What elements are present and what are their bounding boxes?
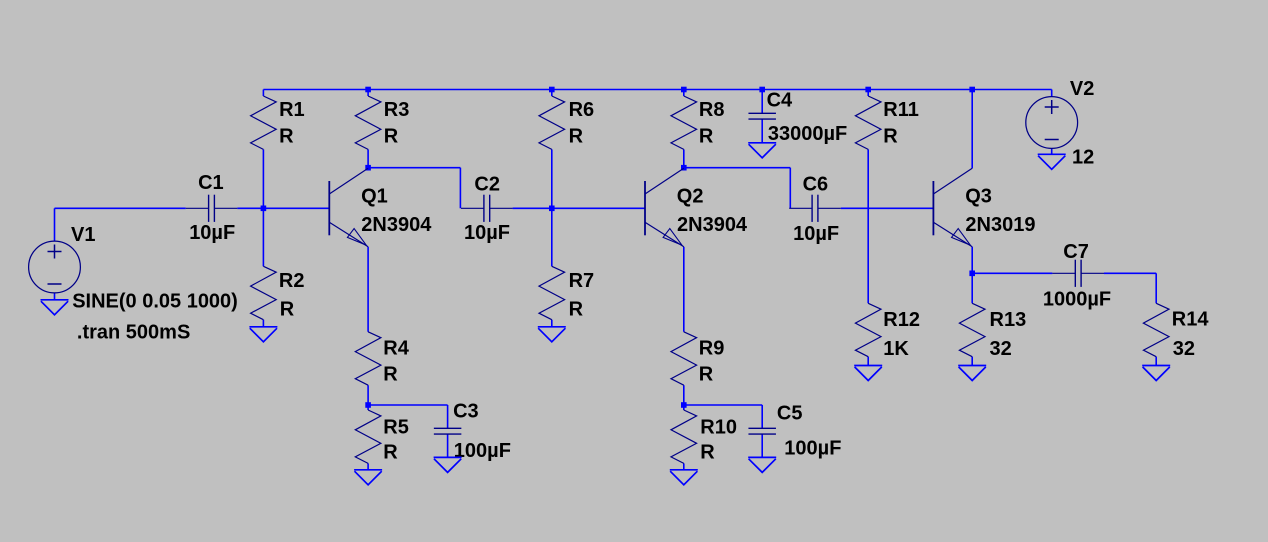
svg-text:10µF: 10µF (464, 222, 510, 244)
svg-text:R: R (384, 126, 399, 148)
resistor R4 (355, 332, 381, 385)
junction Q2 collector node (681, 165, 687, 171)
svg-text:100µF: 100µF (784, 438, 841, 460)
svg-text:R1: R1 (279, 99, 305, 121)
voltage source V1 (29, 241, 81, 293)
wire top supply rail (263, 89, 1051, 91)
wire C2 corner drop (459, 168, 461, 209)
svg-text:R: R (383, 442, 398, 464)
wire R5 ground stub (367, 463, 369, 469)
wire R6 top stub (551, 90, 553, 97)
capacitor C2 (461, 195, 513, 222)
wire R2 top lead (262, 208, 264, 266)
resistor R1 (251, 96, 277, 149)
junction R3 top (365, 87, 371, 93)
wire node A to Q1 base (263, 207, 329, 209)
wire C5 bottom lead (761, 434, 763, 457)
junction node B (C2/R6/R7/Q2 base) (549, 206, 555, 212)
wire V1 to signal row (54, 208, 56, 241)
wire R7 ground stub (551, 320, 553, 327)
svg-text:33000µF: 33000µF (768, 123, 847, 145)
resistor R9 (671, 332, 697, 385)
resistor R3 (355, 96, 381, 149)
svg-text:C3: C3 (453, 401, 479, 423)
capacitor C7 (1052, 260, 1104, 287)
svg-text:R3: R3 (384, 99, 410, 121)
wire R12 ground stub (867, 357, 869, 366)
wire V2 ground stub (1051, 148, 1053, 154)
wire Q2 emitter to R9 (683, 247, 685, 332)
svg-text:R6: R6 (569, 99, 595, 121)
capacitor C3 (434, 428, 462, 434)
ground R10 (670, 470, 698, 485)
resistor R7 (539, 266, 565, 319)
svg-text:V1: V1 (71, 224, 95, 246)
svg-text:R13: R13 (990, 309, 1027, 331)
ground R7 (538, 327, 566, 342)
svg-text:R2: R2 (279, 270, 305, 292)
svg-text:Q3: Q3 (965, 185, 992, 207)
svg-text:Q2: Q2 (677, 185, 704, 207)
wire Q1 emitter to R4 (367, 247, 369, 332)
wire R10 top stub (683, 405, 685, 410)
wire R6 bottom lead (551, 149, 553, 208)
wire Q3 collector riser (971, 90, 973, 169)
svg-text:32: 32 (990, 338, 1012, 360)
wire C7 to R14 corner (1104, 272, 1156, 274)
wire R5 top stub (367, 405, 369, 410)
resistor R11 (855, 96, 881, 149)
wire R1 bottom lead (262, 149, 264, 208)
wire C5 top lead (761, 405, 763, 428)
wire C6 right to Q3 base (841, 207, 934, 209)
svg-text:32: 32 (1173, 338, 1195, 360)
svg-text:2N3019: 2N3019 (965, 214, 1035, 236)
svg-text:R: R (569, 299, 584, 321)
svg-text:C1: C1 (198, 172, 224, 194)
junction node C (R4/R5/C3) (365, 402, 371, 408)
svg-text:R: R (699, 364, 714, 386)
svg-text:.tran 500mS: .tran 500mS (77, 321, 190, 343)
capacitor C4 (748, 113, 776, 119)
svg-text:10µF: 10µF (793, 223, 839, 245)
ground R5 (354, 470, 382, 485)
resistor R8 (671, 96, 697, 149)
ground C4 (748, 143, 776, 158)
ground V2 (1038, 154, 1066, 169)
wire R1 top stub (262, 90, 264, 97)
svg-text:10µF: 10µF (189, 222, 235, 244)
wire C2 right to node B (513, 207, 552, 209)
svg-text:R11: R11 (883, 99, 919, 121)
ground V1 (41, 300, 69, 315)
capacitor C1 (186, 195, 238, 222)
svg-text:R12: R12 (883, 309, 920, 331)
wire C4 bottom lead (761, 119, 763, 143)
transistor Q1 (329, 168, 368, 247)
wire C1 to node A (237, 207, 263, 209)
svg-text:2N3904: 2N3904 (361, 214, 432, 236)
svg-text:C7: C7 (1063, 241, 1089, 263)
svg-text:R: R (383, 364, 398, 386)
svg-text:C5: C5 (777, 402, 803, 424)
wire node C to C3 (368, 404, 448, 406)
transistor Q2 (645, 168, 684, 247)
capacitor C5 (748, 428, 776, 434)
wire C3 bottom lead (447, 434, 449, 457)
svg-text:R5: R5 (383, 417, 409, 439)
transistor Q3 (933, 168, 972, 247)
resistor R14 (1143, 303, 1169, 356)
svg-text:1000µF: 1000µF (1043, 289, 1111, 311)
svg-text:100µF: 100µF (454, 440, 511, 462)
wire R10 ground stub (683, 463, 685, 469)
svg-text:R: R (883, 126, 898, 148)
svg-text:R8: R8 (699, 99, 725, 121)
wire C3 top lead (447, 405, 449, 428)
wire R3 top stub (367, 90, 369, 97)
wire R14 ground stub (1155, 357, 1157, 366)
svg-text:R: R (699, 126, 714, 148)
svg-text:SINE(0 0.05 1000): SINE(0 0.05 1000) (72, 291, 238, 313)
wire node D to C5 (684, 404, 762, 406)
wire R8 top stub (683, 90, 685, 97)
svg-text:R4: R4 (383, 338, 409, 360)
ground R14 (1142, 366, 1170, 381)
svg-text:C2: C2 (474, 173, 500, 195)
wire V1 ground stub (54, 293, 56, 300)
junction Q1 collector node (365, 165, 371, 171)
svg-text:1K: 1K (883, 338, 909, 360)
wire R8 bottom lead (683, 149, 685, 167)
svg-text:R14: R14 (1172, 309, 1210, 331)
svg-text:Q1: Q1 (361, 185, 388, 207)
wire R13 ground stub (971, 357, 973, 366)
wire R2 ground stub (262, 320, 264, 327)
wire node E to R13 (971, 273, 973, 303)
svg-text:R10: R10 (700, 417, 737, 439)
junction node E (Q3 emitter/R13/C7) (969, 271, 975, 277)
ground C5 (748, 457, 776, 472)
svg-text:12: 12 (1072, 146, 1094, 168)
wire R9 to node D (683, 385, 685, 405)
ground R13 (958, 366, 986, 381)
wire R14 top lead (1155, 273, 1157, 303)
wire Q2 collector node to C6 corner (684, 167, 791, 169)
wire node E to C7 (972, 272, 1052, 274)
capacitor C6 (789, 195, 841, 222)
wire R7 top lead (551, 208, 553, 266)
svg-text:R: R (279, 126, 294, 148)
wire node B to Q2 base (552, 207, 645, 209)
resistor R12 (855, 303, 881, 356)
svg-text:V2: V2 (1070, 78, 1094, 100)
resistor R6 (539, 96, 565, 149)
svg-text:C6: C6 (803, 174, 829, 196)
junction Q3 collector top (969, 87, 975, 93)
wire R3 bottom lead (367, 149, 369, 167)
junction R6 top (549, 87, 555, 93)
resistor R5 (355, 410, 381, 463)
junction R8 top (681, 87, 687, 93)
ground C3 (434, 457, 462, 472)
junction R11 top (865, 87, 871, 93)
junction node A (C1/R1/R2/Q1 base) (261, 206, 267, 212)
wire R11 top stub (867, 90, 869, 97)
wire V1 to C1 (55, 207, 186, 209)
svg-text:R9: R9 (699, 338, 725, 360)
resistor R2 (251, 266, 277, 319)
junction node D (R9/R10/C5) (681, 402, 687, 408)
junction C4 top (759, 87, 765, 93)
svg-text:C4: C4 (767, 89, 793, 111)
ground R12 (854, 366, 882, 381)
wire R4 to node C (367, 385, 369, 405)
wire C6 corner drop (789, 168, 791, 209)
resistor R10 (671, 410, 697, 463)
svg-text:R: R (569, 126, 584, 148)
svg-text:2N3904: 2N3904 (677, 214, 748, 236)
wire Q1 collector node to C2 corner (368, 167, 460, 169)
voltage source V2 (1026, 97, 1078, 149)
ground R2 (249, 327, 277, 342)
wire Q3 emitter to node E (971, 247, 973, 273)
svg-text:R: R (280, 299, 295, 321)
svg-text:R7: R7 (569, 270, 595, 292)
wire R11 to R12 (867, 149, 869, 303)
wire V2 top drop (1051, 90, 1053, 97)
svg-text:R: R (700, 442, 715, 464)
resistor R13 (959, 303, 985, 356)
wire C4 top lead (761, 90, 763, 114)
